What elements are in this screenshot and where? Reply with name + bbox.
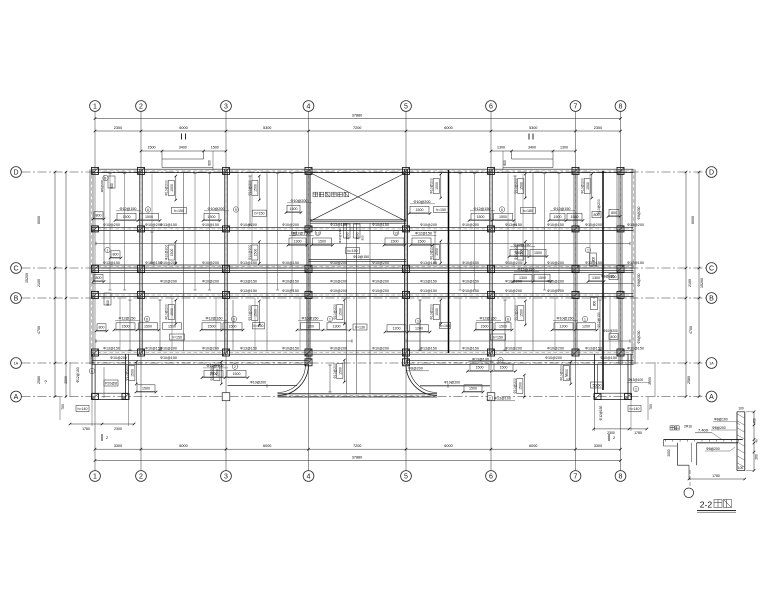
svg-text:b=150: b=150: [348, 249, 358, 253]
svg-text:1500: 1500: [254, 309, 258, 317]
svg-text:4: 4: [307, 474, 311, 481]
svg-text:Φ10@200: Φ10@200: [514, 305, 518, 321]
svg-text:2580: 2580: [37, 376, 41, 384]
svg-text:2: 2: [489, 396, 491, 400]
svg-text:Φ13@150: Φ13@150: [240, 347, 257, 351]
svg-text:1300: 1300: [560, 146, 568, 150]
svg-text:1500: 1500: [418, 240, 426, 244]
svg-text:b=150: b=150: [254, 212, 264, 216]
svg-text:1500: 1500: [290, 207, 298, 211]
svg-text:800: 800: [96, 213, 102, 217]
svg-text:Φ10@200: Φ10@200: [513, 378, 517, 394]
svg-text:800: 800: [110, 183, 114, 189]
svg-text:800: 800: [611, 211, 617, 215]
svg-text:Φ10@150: Φ10@150: [627, 261, 644, 265]
svg-text:A: A: [709, 394, 714, 401]
svg-text:1500: 1500: [148, 146, 156, 150]
svg-text:4700: 4700: [689, 326, 693, 334]
svg-text:1: 1: [584, 317, 586, 321]
svg-text:Φ10@200: Φ10@200: [462, 223, 479, 227]
svg-text:Φ10@150: Φ10@150: [547, 223, 564, 227]
svg-text:1500: 1500: [500, 366, 508, 370]
svg-text:Φ10@200: Φ10@200: [333, 363, 337, 379]
svg-text:1500: 1500: [416, 208, 424, 212]
svg-text:1500: 1500: [345, 232, 349, 239]
svg-text:13: 13: [394, 231, 398, 235]
svg-text:Φ10@150: Φ10@150: [202, 223, 219, 227]
svg-text:C: C: [709, 266, 714, 273]
svg-text:Φ8@200: Φ8@200: [408, 367, 423, 371]
svg-text:1200: 1200: [582, 324, 590, 328]
svg-text:1580: 1580: [571, 215, 579, 219]
svg-text:6: 6: [501, 208, 503, 212]
svg-text:2100: 2100: [37, 279, 41, 287]
svg-text:1500: 1500: [499, 215, 507, 219]
svg-text:Φ10@200: Φ10@200: [160, 261, 177, 265]
svg-text:1: 1: [93, 104, 97, 111]
svg-text:Φ12@160: Φ12@160: [206, 316, 223, 320]
svg-text:2000: 2000: [64, 376, 68, 384]
svg-text:Φ13@100: Φ13@100: [494, 397, 511, 401]
svg-text:Φ13@150: Φ13@150: [330, 223, 347, 227]
svg-text:2100: 2100: [688, 279, 692, 287]
svg-text:Φ13@150: Φ13@150: [585, 261, 602, 265]
svg-text:h=140: h=140: [77, 407, 87, 411]
svg-text:Φ10@200: Φ10@200: [414, 200, 431, 204]
svg-text:5: 5: [404, 104, 408, 111]
svg-text:Φ10@200: Φ10@200: [160, 347, 177, 351]
svg-text:260: 260: [755, 454, 759, 460]
svg-text:Φ13@100: Φ13@100: [472, 358, 489, 362]
svg-text:1300: 1300: [592, 276, 600, 280]
svg-text:400: 400: [611, 335, 617, 339]
svg-text:1500: 1500: [131, 369, 135, 377]
svg-text:6000: 6000: [444, 126, 452, 130]
svg-text:Φ10@200: Φ10@200: [372, 279, 389, 283]
svg-text:Φ10@200: Φ10@200: [505, 347, 522, 351]
svg-text:Φ10@200: Φ10@200: [514, 245, 518, 261]
svg-text:2: 2: [500, 359, 502, 363]
svg-text:800: 800: [99, 325, 105, 329]
svg-text:Φ10@150: Φ10@150: [282, 261, 299, 265]
svg-text:Φ10@200: Φ10@200: [282, 223, 299, 227]
svg-text:Φ12@150: Φ12@150: [474, 207, 491, 211]
svg-text:2: 2: [613, 436, 615, 440]
svg-text:37880: 37880: [352, 114, 363, 118]
svg-text:Φ10@200: Φ10@200: [202, 279, 219, 283]
svg-text:1500: 1500: [144, 324, 152, 328]
svg-text:Φ10@200: Φ10@200: [547, 279, 564, 283]
svg-text:6000: 6000: [37, 216, 41, 224]
svg-text:1500: 1500: [208, 324, 216, 328]
svg-text:2Φ16: 2Φ16: [684, 425, 692, 429]
svg-text:Φ10@150: Φ10@150: [282, 347, 299, 351]
svg-text:Φ12@150: Φ12@150: [599, 405, 603, 420]
svg-text:Φ13@150: Φ13@150: [103, 347, 120, 351]
svg-text:1500: 1500: [229, 324, 237, 328]
svg-text:1500: 1500: [318, 240, 326, 244]
svg-text:1: 1: [329, 317, 331, 321]
svg-text:7200: 7200: [353, 444, 361, 448]
svg-text:1500: 1500: [170, 249, 174, 257]
svg-text:Φ10@200: Φ10@200: [597, 199, 601, 215]
svg-text:2000: 2000: [667, 449, 671, 456]
svg-text:1500: 1500: [254, 184, 258, 192]
svg-text:Φ10@150: Φ10@150: [353, 255, 369, 259]
svg-text:6000: 6000: [263, 444, 271, 448]
svg-text:15200: 15200: [25, 273, 29, 283]
svg-text:3400: 3400: [179, 146, 187, 150]
svg-text:Φ10@200: Φ10@200: [505, 289, 522, 293]
svg-text:Φ10@150: Φ10@150: [557, 316, 574, 320]
svg-text:1780: 1780: [634, 431, 642, 435]
svg-text:8: 8: [619, 474, 623, 481]
svg-text:Φ10@200: Φ10@200: [547, 347, 564, 351]
svg-text:Φ10@150: Φ10@150: [160, 356, 177, 360]
svg-text:480: 480: [753, 418, 757, 424]
svg-text:Φ10@200: Φ10@200: [444, 380, 460, 384]
svg-text:Φ13@100: Φ13@100: [628, 378, 643, 382]
svg-text:1A: 1A: [709, 361, 714, 365]
svg-text:Φ10@200: Φ10@200: [333, 304, 337, 320]
svg-text:8: 8: [619, 104, 623, 111]
svg-text:Φ10@200: Φ10@200: [627, 223, 644, 227]
svg-text:A: A: [14, 394, 19, 401]
svg-text:b=160: b=160: [440, 324, 450, 328]
svg-text:Φ10@200: Φ10@200: [165, 180, 169, 196]
svg-text:6000: 6000: [691, 216, 695, 224]
svg-text:Φ13@150: Φ13@150: [420, 289, 437, 293]
svg-text:1500: 1500: [142, 386, 150, 390]
svg-text:Φ10@200: Φ10@200: [160, 279, 177, 283]
svg-text:100: 100: [738, 466, 744, 470]
svg-text:Φ10@200: Φ10@200: [430, 304, 434, 320]
svg-text:6: 6: [489, 104, 493, 111]
svg-text:300: 300: [361, 235, 365, 240]
svg-text:1500: 1500: [554, 215, 562, 219]
svg-text:780: 780: [61, 404, 65, 410]
svg-text:1500: 1500: [355, 232, 359, 239]
svg-text:Φ10@200: Φ10@200: [560, 365, 564, 381]
svg-text:40: 40: [755, 439, 759, 443]
svg-text:1500: 1500: [122, 324, 130, 328]
svg-text:1: 1: [587, 248, 589, 252]
svg-text:b=180: b=180: [523, 209, 533, 213]
svg-text:Φ10@200: Φ10@200: [430, 244, 434, 260]
svg-text:1500: 1500: [499, 324, 507, 328]
svg-text:Φ10@200: Φ10@200: [420, 223, 437, 227]
svg-text:Φ10@150: Φ10@150: [462, 279, 479, 283]
svg-text:Φ10@200: Φ10@200: [248, 305, 252, 321]
svg-text:4700: 4700: [37, 326, 41, 334]
svg-text:1500: 1500: [469, 386, 477, 390]
svg-text:Φ12@150: Φ12@150: [120, 207, 137, 211]
svg-text:Φ8@100: Φ8@100: [714, 418, 728, 422]
svg-text:Φ13@150: Φ13@150: [160, 223, 177, 227]
svg-text:800: 800: [106, 300, 110, 306]
svg-text:37880: 37880: [352, 455, 363, 459]
svg-text:Φ10@200: Φ10@200: [165, 245, 169, 261]
svg-text:Φ10@200: Φ10@200: [291, 199, 308, 203]
svg-text:Φ10@200: Φ10@200: [547, 289, 564, 293]
svg-text:Φ13@150: Φ13@150: [240, 289, 257, 293]
svg-text:1300: 1300: [333, 324, 341, 328]
svg-text:1500: 1500: [435, 308, 439, 316]
svg-text:Φ10@150: Φ10@150: [462, 261, 479, 265]
svg-text:6000: 6000: [444, 444, 452, 448]
svg-text:1500: 1500: [538, 276, 546, 280]
svg-text:1500: 1500: [519, 382, 523, 390]
svg-text:3300: 3300: [114, 444, 122, 448]
svg-text:1500: 1500: [435, 248, 439, 256]
svg-text:B: B: [709, 296, 714, 303]
svg-text:1200: 1200: [393, 326, 401, 330]
svg-text:Φ13@150: Φ13@150: [420, 347, 437, 351]
svg-text:Φ10@200: Φ10@200: [165, 304, 169, 320]
svg-text:1500: 1500: [233, 372, 241, 376]
svg-text:2300: 2300: [114, 427, 122, 431]
svg-text:6000: 6000: [529, 444, 537, 448]
svg-text:Φ13@150: Φ13@150: [420, 279, 437, 283]
svg-text:8: 8: [507, 317, 509, 321]
svg-text:Φ8@200: Φ8@200: [712, 426, 726, 430]
svg-text:7: 7: [574, 474, 578, 481]
svg-text:4: 4: [307, 104, 311, 111]
svg-text:2300: 2300: [114, 126, 122, 130]
svg-text:B: B: [14, 296, 19, 303]
svg-text:1A: 1A: [14, 361, 19, 365]
svg-text:1300: 1300: [497, 146, 505, 150]
svg-text:D: D: [13, 170, 18, 177]
svg-text:5300: 5300: [529, 126, 537, 130]
svg-text:Φ12@150: Φ12@150: [415, 232, 432, 236]
svg-text:1500: 1500: [254, 249, 258, 257]
svg-text:1500: 1500: [123, 215, 131, 219]
svg-text:1500: 1500: [339, 308, 343, 316]
svg-text:Φ10@200: Φ10@200: [603, 329, 618, 333]
svg-text:800: 800: [96, 276, 102, 280]
svg-text:Φ10@200: Φ10@200: [110, 356, 127, 360]
svg-text:2: 2: [234, 365, 236, 369]
svg-text:Φ12@150: Φ12@150: [597, 312, 601, 328]
svg-text:1500: 1500: [481, 324, 489, 328]
svg-text:3: 3: [224, 474, 228, 481]
svg-text:Φ10@200: Φ10@200: [248, 245, 252, 261]
svg-text:2: 2: [565, 374, 567, 378]
svg-text:780: 780: [649, 404, 653, 410]
svg-text:2: 2: [139, 104, 143, 111]
svg-text:Φ13@150: Φ13@150: [240, 279, 257, 283]
svg-text:h=150: h=150: [436, 208, 446, 212]
svg-text:6: 6: [147, 208, 149, 212]
svg-text:9: 9: [235, 208, 237, 212]
svg-text:Φ10@200: Φ10@200: [581, 178, 585, 194]
svg-text:Φ10@200: Φ10@200: [330, 261, 347, 265]
svg-text:1: 1: [417, 319, 419, 323]
svg-text:6: 6: [91, 369, 93, 373]
svg-text:50|50: 50|50: [593, 383, 602, 387]
svg-text:1500: 1500: [170, 184, 174, 192]
svg-text:Φ8@200: Φ8@200: [637, 273, 641, 286]
svg-text:Φ10@200: Φ10@200: [545, 356, 562, 360]
svg-text:3: 3: [224, 104, 228, 111]
svg-text:Φ10@200: Φ10@200: [505, 261, 522, 265]
svg-text:7200: 7200: [353, 126, 361, 130]
svg-text:Φ10@200: Φ10@200: [202, 261, 219, 265]
svg-text:Φ10@200: Φ10@200: [210, 365, 214, 381]
svg-text:Φ8@200: Φ8@200: [706, 447, 720, 451]
svg-text:1500: 1500: [208, 215, 216, 219]
svg-text:1500: 1500: [391, 240, 399, 244]
svg-text:8: 8: [105, 176, 107, 180]
svg-text:Φ10@150: Φ10@150: [627, 347, 644, 351]
svg-text:6000: 6000: [179, 126, 187, 130]
svg-text:Φ10@200: Φ10@200: [514, 178, 518, 194]
svg-text:1500: 1500: [216, 369, 220, 377]
svg-text:Φ10@200: Φ10@200: [330, 347, 347, 351]
svg-text:Φ10@150: Φ10@150: [462, 347, 479, 351]
svg-text:Φ10@200: Φ10@200: [372, 347, 389, 351]
svg-text:~2: ~2: [44, 380, 48, 384]
svg-text:Φ10@200: Φ10@200: [330, 289, 347, 293]
svg-text:1: 1: [93, 474, 97, 481]
svg-text:2: 2: [106, 436, 108, 440]
svg-text:b=130: b=130: [355, 325, 365, 329]
svg-text:2: 2: [139, 474, 143, 481]
svg-text:Φ10@200: Φ10@200: [430, 178, 434, 194]
svg-text:1: 1: [107, 248, 109, 252]
svg-text:800: 800: [503, 160, 507, 166]
svg-text:Φ12@150: Φ12@150: [76, 367, 80, 382]
svg-text:Φ8@200: Φ8@200: [100, 179, 104, 192]
svg-text:800: 800: [593, 301, 597, 307]
svg-text:Φ12@100: Φ12@100: [207, 364, 224, 368]
svg-text:P20@8: P20@8: [105, 381, 117, 385]
svg-text:1500: 1500: [534, 251, 542, 255]
svg-text:1500: 1500: [520, 309, 524, 317]
svg-text:2: 2: [635, 387, 637, 391]
svg-text:2-2: 2-2: [700, 500, 713, 510]
svg-text:7.400: 7.400: [698, 428, 709, 433]
svg-text:800: 800: [113, 252, 119, 256]
svg-text:Φ10@150: Φ10@150: [462, 289, 479, 293]
svg-text:1500: 1500: [339, 367, 343, 375]
svg-text:2000: 2000: [648, 377, 652, 385]
svg-text:D: D: [709, 170, 714, 177]
svg-text:Φ13@150: Φ13@150: [103, 261, 120, 265]
svg-text:800: 800: [208, 160, 212, 166]
svg-text:Φ10@200: Φ10@200: [103, 223, 120, 227]
svg-text:Φ10@150: Φ10@150: [372, 223, 389, 227]
svg-text:5: 5: [404, 474, 408, 481]
svg-text:Φ10@150: Φ10@150: [338, 229, 342, 243]
svg-text:Φ12@150: Φ12@150: [480, 316, 497, 320]
svg-text:Φ10@200: Φ10@200: [547, 261, 564, 265]
svg-text:Φ10@200: Φ10@200: [372, 261, 389, 265]
svg-text:Φ10@150: Φ10@150: [302, 316, 319, 320]
svg-text:1200: 1200: [415, 326, 423, 330]
svg-text:15200: 15200: [700, 278, 704, 288]
svg-text:h=150: h=150: [172, 335, 182, 339]
svg-text:Φ10@150: Φ10@150: [600, 356, 617, 360]
svg-text:Φ8@200: Φ8@200: [637, 330, 641, 343]
svg-text:3300: 3300: [594, 444, 602, 448]
svg-text:6000: 6000: [179, 444, 187, 448]
svg-text:Φ10@200: Φ10@200: [505, 279, 522, 283]
svg-text:Φ10@200: Φ10@200: [125, 365, 129, 381]
svg-text:1500: 1500: [477, 215, 485, 219]
svg-text:5300: 5300: [263, 126, 271, 130]
svg-text:1500: 1500: [435, 182, 439, 190]
svg-text:13: 13: [292, 231, 296, 235]
svg-text:100: 100: [738, 407, 744, 411]
svg-text:h=150: h=150: [174, 209, 184, 213]
svg-text:1200: 1200: [306, 324, 314, 328]
svg-text:C: C: [13, 266, 18, 273]
svg-text:Φ10@200: Φ10@200: [250, 380, 266, 384]
svg-text:Φ10@150: Φ10@150: [282, 279, 299, 283]
svg-text:2300: 2300: [607, 431, 615, 435]
svg-text:8: 8: [146, 317, 148, 321]
svg-text:1780: 1780: [712, 474, 720, 478]
svg-text:1300: 1300: [294, 240, 302, 244]
svg-text:600: 600: [611, 275, 617, 279]
svg-text:1500: 1500: [211, 146, 219, 150]
svg-text:2300: 2300: [594, 126, 602, 130]
svg-text:1500: 1500: [586, 182, 590, 190]
svg-text:Φ10@200: Φ10@200: [585, 223, 602, 227]
svg-text:Φ8@200: Φ8@200: [637, 206, 641, 219]
svg-text:Φ10@200: Φ10@200: [202, 347, 219, 351]
svg-text:Φ10@200: Φ10@200: [208, 207, 225, 211]
svg-text:7: 7: [574, 104, 578, 111]
svg-text:2580: 2580: [687, 376, 691, 384]
svg-text:13: 13: [316, 231, 320, 235]
svg-text:1780: 1780: [82, 427, 90, 431]
svg-text:Φ12@150: Φ12@150: [518, 268, 535, 272]
svg-text:Φ12@150: Φ12@150: [119, 316, 136, 320]
svg-text:6: 6: [489, 474, 493, 481]
svg-text:3400: 3400: [528, 146, 536, 150]
svg-text:Φ10@200: Φ10@200: [372, 289, 389, 293]
svg-text:Φ13@150: Φ13@150: [240, 261, 257, 265]
svg-text:1500: 1500: [476, 366, 484, 370]
svg-text:b=150: b=150: [493, 335, 503, 339]
svg-text:Φ12@150: Φ12@150: [554, 207, 571, 211]
svg-text:1200: 1200: [560, 324, 568, 328]
svg-text:9: 9: [233, 317, 235, 321]
svg-text:Φ10@200: Φ10@200: [330, 279, 347, 283]
